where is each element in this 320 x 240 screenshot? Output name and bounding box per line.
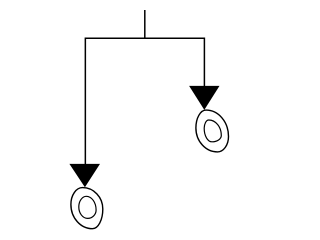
node right outer ring [196, 110, 229, 152]
arrowhead left triangle [69, 164, 100, 187]
arrowhead right triangle [189, 86, 219, 110]
node right inner ring [204, 120, 221, 142]
wire top stub [144, 10, 146, 38]
node left inner ring [79, 196, 96, 218]
node left outer ring [71, 188, 103, 229]
wire horizontal bus with left and right branch drops [85, 38, 204, 165]
